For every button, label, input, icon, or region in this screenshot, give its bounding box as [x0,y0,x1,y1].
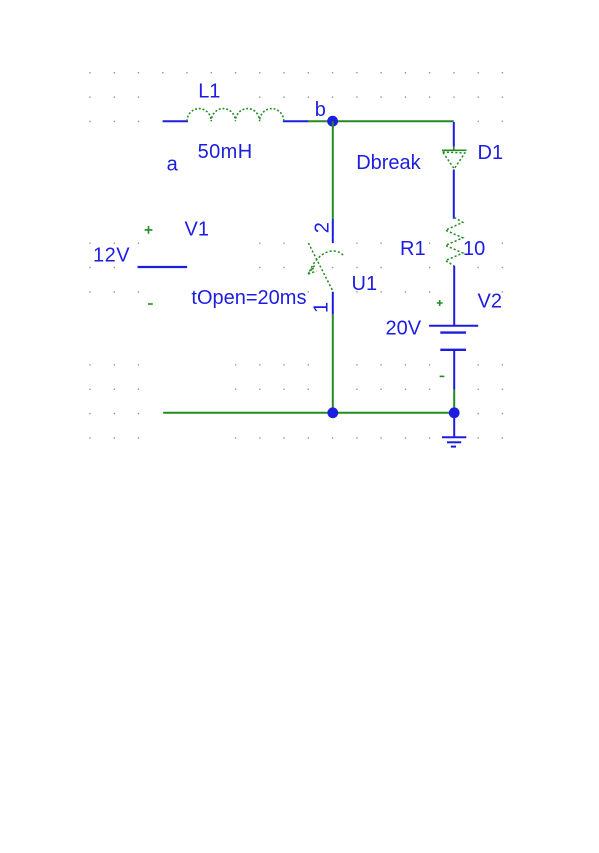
V1 minus sign [148,303,153,305]
switch U1 pin 2 (blue) [332,219,334,243]
source V2 bottom pin (blue) [453,350,455,390]
svg-text:2: 2 [311,222,333,233]
source V2 lower plate [440,349,466,351]
diode D1 bar [442,149,467,151]
svg-text:V2: V2 [478,290,502,312]
svg-text:D1: D1 [478,142,504,164]
wire from node b down to switch pin 2 [332,121,334,219]
bottom net wire [163,412,454,414]
V2 minus sign [440,375,445,377]
ground bar 1 [442,436,466,438]
inductor L1 coil body [187,109,284,122]
V2 plus sign [437,300,443,306]
junction dot bottom left [327,407,338,418]
diode D1 anode stub (green) [453,147,455,151]
source V2 middle plate [440,331,466,333]
svg-text:L1: L1 [198,80,220,102]
svg-text:R1: R1 [400,238,426,260]
junction dot node b [327,116,338,127]
svg-text:a: a [167,154,179,176]
switch U1 lever (dashed green) [308,243,333,292]
svg-text:V1: V1 [185,218,209,240]
inductor L1 pin 1 (left, blue) [163,120,188,122]
svg-text:Dbreak: Dbreak [356,152,421,174]
switch U1 pin 1 (blue) [332,292,334,315]
svg-text:50mH: 50mH [198,141,253,163]
resistor R1 body (dashed green zigzag) [446,218,463,266]
svg-text:12V: 12V [93,245,130,267]
source V1 plate [138,266,188,268]
switch U1 arrowhead [307,266,314,275]
inductor L1 pin 2 (right, blue) [283,120,309,122]
svg-text:tOpen=20ms: tOpen=20ms [191,287,306,309]
switch U1 travel arc (dashed green) [310,251,344,272]
diode D1 bottom pin (blue) [453,170,455,219]
wire top (node b net, horizontal) [308,120,454,122]
svg-text:1: 1 [311,302,333,313]
svg-text:U1: U1 [352,273,378,295]
V1 plus sign [145,226,153,234]
diode D1 triangle (dashed green) [443,152,465,169]
svg-text:10: 10 [463,238,485,260]
source V2 long plate [429,325,478,327]
svg-text:b: b [315,99,326,121]
wire from switch pin 1 down to bottom net [332,315,334,413]
junction dot bottom right [449,407,460,418]
wire V2 to bottom net [453,390,455,413]
ground bar 3 [451,446,456,448]
resistor R1 bottom pin (blue) [453,266,455,326]
ground stem [453,415,455,437]
svg-text:20V: 20V [386,317,422,339]
ground bar 2 [447,441,461,443]
diode D1 top pin (blue) [453,122,455,147]
